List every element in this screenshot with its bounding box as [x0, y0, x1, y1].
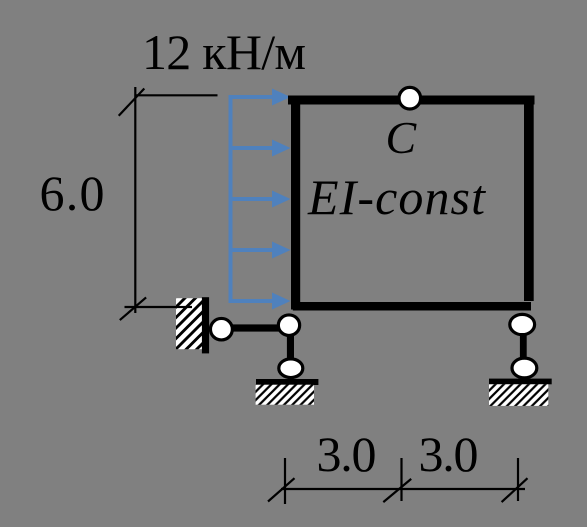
- load arrow 4: [229, 242, 291, 259]
- load arrow 1: [229, 89, 291, 106]
- bottom dim tick 3: [517, 458, 519, 501]
- svg-text:C: C: [386, 112, 418, 163]
- right support plate: [489, 379, 552, 385]
- wall hinge circle: [210, 318, 232, 340]
- frame top beam: [288, 96, 535, 105]
- bottom dimension line: [281, 488, 525, 490]
- left support plate: [256, 379, 318, 385]
- link bar vertical left (corner hinge to roller hinge): [287, 325, 294, 368]
- left roller hinge circle: [279, 359, 303, 378]
- extension line top: [135, 94, 217, 96]
- frame corner hinge circle: [278, 315, 299, 336]
- svg-text:3.0: 3.0: [419, 426, 479, 482]
- tick slash bottom: [120, 297, 146, 320]
- svg-text:EI-const: EI-const: [307, 169, 486, 225]
- extension line bottom: [125, 306, 193, 308]
- wall support face bar: [202, 297, 209, 353]
- load arrow 2: [229, 140, 291, 157]
- link bar vertical right: [520, 324, 527, 367]
- load arrow 5: [229, 293, 291, 310]
- hinge C circle: [399, 87, 421, 109]
- link bar horizontal (wall hinge to corner hinge): [221, 324, 288, 331]
- left support ground hatch: [256, 385, 314, 405]
- dimension line 6.0 vertical: [134, 87, 136, 313]
- bottom dim tick 1: [284, 458, 286, 504]
- frame right column: [524, 96, 534, 302]
- right lower hinge circle: [512, 358, 537, 378]
- distributed load vertical line: [229, 97, 233, 301]
- svg-text:6.0: 6.0: [40, 165, 105, 221]
- right support ground hatch: [489, 384, 548, 406]
- wall support hatched block: [176, 298, 203, 349]
- load arrow 3: [229, 191, 291, 208]
- svg-text:12 кН/м: 12 кН/м: [142, 24, 306, 80]
- frame left column: [291, 96, 300, 310]
- frame bottom beam: [293, 302, 531, 311]
- bottom dim tick 2: [400, 458, 402, 501]
- extension line segment over wall hatch: [176, 306, 192, 308]
- tick slash top: [119, 89, 145, 116]
- right upper hinge circle: [510, 314, 535, 334]
- svg-text:3.0: 3.0: [317, 426, 377, 482]
